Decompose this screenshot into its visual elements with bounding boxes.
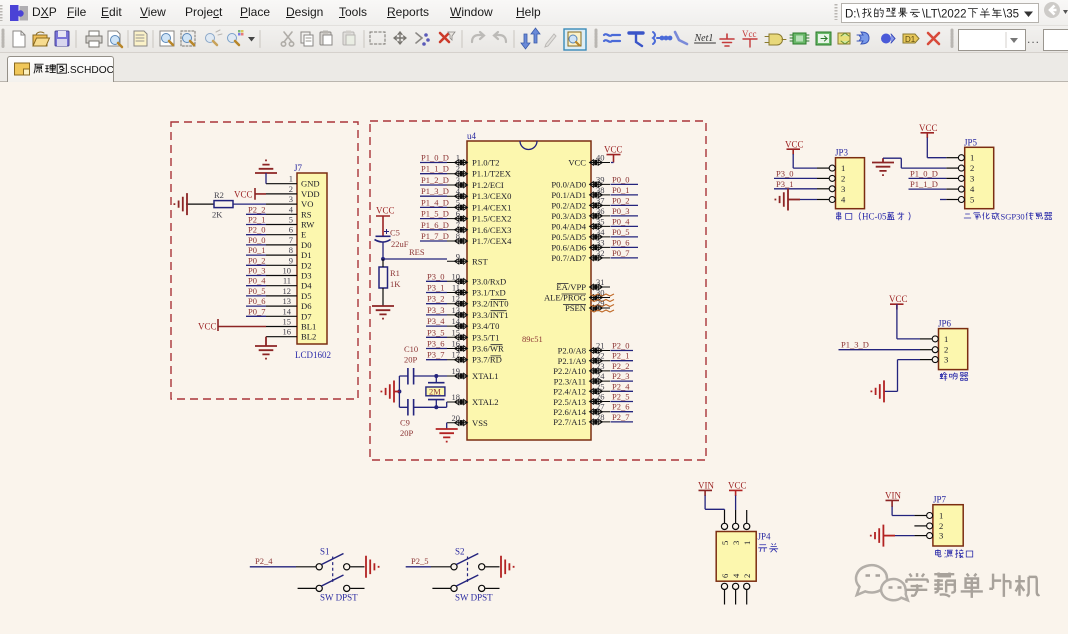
svg-text:P0_1: P0_1 [612,185,629,195]
svg-text:D0: D0 [301,240,312,250]
svg-text:3: 3 [456,175,460,185]
net label P2_5 right [611,392,634,402]
svg-text:VCC: VCC [198,322,217,332]
svg-text:VSS: VSS [472,418,488,428]
MCU right pin names [544,158,587,428]
svg-text:D3: D3 [301,271,312,281]
ground above J7 pin 1 [255,160,277,183]
power port VIN above JP7 [885,491,901,507]
connector JP3 body [835,148,865,209]
JP4 bottom pins 6,4,2 [721,583,749,604]
net label P2_3 right [611,371,634,381]
svg-text:P0_7: P0_7 [612,248,629,258]
JP4 rotated pin numbers bottom 6 4 2 [720,573,752,578]
svg-text:R1: R1 [390,268,400,278]
net label P3_1 at JP3 [774,179,817,189]
no-ERC marks on pins 30,29 [590,294,614,312]
net label P0_7 right [611,248,639,258]
JP4 label switch kaiguan [758,543,778,552]
svg-text:28: 28 [596,412,605,422]
svg-text:VCC: VCC [889,294,908,304]
svg-text:6: 6 [456,209,460,219]
svg-text:SW DPST: SW DPST [320,593,358,603]
wire VCC to JP6 pin1 [897,304,920,339]
svg-text:D7: D7 [301,311,312,321]
svg-text:XTAL2: XTAL2 [472,397,499,407]
svg-text:20P: 20P [404,355,418,365]
net label P2_1 right [611,351,634,361]
net label P0_1 right [611,185,639,195]
svg-text:P3.1/TxD: P3.1/TxD [472,288,506,298]
svg-text:29: 29 [596,298,605,308]
svg-text:4: 4 [970,184,975,194]
svg-text:S1: S1 [320,547,330,557]
svg-text:40: 40 [596,153,605,163]
svg-text:1: 1 [456,153,460,163]
resistor R2 [186,190,233,220]
svg-text:P2_5: P2_5 [612,392,629,402]
svg-text:P1.5/CEX2: P1.5/CEX2 [472,214,511,224]
net label P0_5 right [611,227,639,237]
svg-text:2: 2 [841,173,845,183]
svg-text:8: 8 [456,231,460,241]
svg-text:P2_1: P2_1 [612,351,629,361]
power port VIN above JP4 [698,481,714,496]
net label P0_5 [246,286,266,296]
net label P3_0 at JP3 [774,168,817,178]
svg-text:39: 39 [596,174,605,184]
ground at JP5 pin2 [872,158,894,175]
svg-text:2: 2 [456,164,460,174]
svg-text:LCD1602: LCD1602 [295,350,331,360]
J7 pin names [301,179,320,342]
wire VCC to JP5 pin1 [927,138,946,158]
net label P3_2 [426,294,447,304]
power port VCC above JP6 [889,294,908,309]
svg-text:P1_0_D: P1_0_D [421,153,449,163]
net label P0_2 right [611,195,639,205]
net label P2_4 right [611,381,634,391]
svg-text:P3_7: P3_7 [427,350,444,360]
JP5 label CO2 SGP30 sensor [964,211,1052,221]
svg-text:P0.7/AD7: P0.7/AD7 [551,253,586,263]
svg-text:20P: 20P [400,428,414,438]
svg-text:P0.5/AD5: P0.5/AD5 [551,232,586,242]
connector JP7 body [933,495,963,546]
svg-text:12: 12 [283,286,292,296]
svg-text:P3_0: P3_0 [776,168,793,178]
svg-text:VCC: VCC [919,123,938,133]
svg-text:P1_7_D: P1_7_D [421,231,449,241]
ground left of R2 [174,193,187,215]
svg-text:10: 10 [452,271,461,281]
net label P0_3 [246,266,266,276]
svg-text:\LT\2022: \LT\2022 [922,9,967,21]
ground below R1 [372,306,394,319]
svg-text:P2_4: P2_4 [255,556,273,566]
svg-text:u4: u4 [467,131,477,141]
svg-text:P0_2: P0_2 [248,255,265,265]
svg-text:P1.1/T2EX: P1.1/T2EX [472,169,512,179]
JP7 label power interface [936,549,973,557]
svg-text:P0.2/AD2: P0.2/AD2 [551,200,586,210]
svg-text:RST: RST [472,256,489,266]
svg-text:D:\: D:\ [845,9,861,21]
J7 pin numbers [283,174,294,337]
wire J7 pin1 [265,183,267,185]
JP7 pin numbers [939,511,943,541]
svg-text:JP7: JP7 [933,495,947,505]
svg-text:P3_1: P3_1 [776,179,793,189]
net label P0_7 [246,306,266,316]
net label P0_1 [246,245,266,255]
svg-text:P0_7: P0_7 [248,306,265,316]
svg-text:5: 5 [720,541,730,545]
net label P1_5_D [420,209,449,219]
svg-text:VCC: VCC [604,145,623,155]
svg-text:RW: RW [301,220,315,230]
wires XTAL1 net [399,374,447,378]
svg-text:P2.6/A14: P2.6/A14 [553,407,586,417]
svg-text:P0.0/AD0: P0.0/AD0 [551,179,586,189]
svg-text:P1.6/CEX3: P1.6/CEX3 [472,225,511,235]
svg-text:P3_2: P3_2 [427,294,444,304]
capacitor C5 22uF polarized [375,228,409,250]
net label P3_7 [426,350,447,360]
svg-text:VCC: VCC [728,481,747,491]
svg-text:RES: RES [409,247,425,257]
svg-text:30: 30 [596,288,605,298]
svg-text:P2_4: P2_4 [612,381,630,391]
crystal Y1 2M [426,376,445,407]
svg-text:SW DPST: SW DPST [455,593,493,603]
svg-text:P2_1: P2_1 [248,215,265,225]
MCU pin 9 [447,259,467,264]
svg-text:13: 13 [452,305,461,315]
MCU left pin names P1 [472,158,512,428]
svg-text:20: 20 [452,413,461,423]
MCU pins 10-17 [447,279,467,363]
svg-text:2: 2 [944,345,948,355]
svg-text:5: 5 [289,215,293,225]
svg-text:P2_7: P2_7 [612,412,629,422]
svg-text:14: 14 [283,306,292,316]
net label P1_7_D [420,231,449,241]
JP7 pins 1-3 [914,513,932,539]
net label P1_1_D [420,164,449,174]
svg-text:P0_0: P0_0 [612,174,629,184]
svg-text:9: 9 [289,255,293,265]
svg-text:36: 36 [596,206,605,216]
JP5 pin numbers [970,153,975,205]
net label P0_3 right [611,206,639,216]
svg-text:P3_1: P3_1 [427,283,444,293]
svg-text:12: 12 [452,294,461,304]
svg-text:1: 1 [970,153,974,163]
JP4 rotated pin numbers top 5 3 1 [720,541,752,545]
svg-text:3: 3 [939,531,943,541]
connector JP6 body [938,319,968,370]
ground below VSS pin20 [436,429,458,442]
svg-text:P1_4_D: P1_4_D [421,197,449,207]
svg-text:P1.2/ECI: P1.2/ECI [472,180,504,190]
svg-text:6: 6 [289,225,293,235]
svg-text:8: 8 [289,245,293,255]
MCU right pin numbers [596,153,605,422]
net label P3_5 [426,327,447,337]
net label P2_1 [246,215,266,225]
svg-text:16: 16 [283,327,292,337]
svg-text:VDD: VDD [301,189,320,199]
svg-text:P0_3: P0_3 [612,206,629,216]
svg-text:32: 32 [596,248,605,258]
net label P1_3_D [420,186,449,196]
ground at S2 [501,556,514,578]
svg-text:SGP30: SGP30 [1001,211,1025,221]
svg-text:R2: R2 [214,190,224,200]
svg-text:1K: 1K [390,279,401,289]
svg-text:2: 2 [289,184,293,194]
svg-text:4: 4 [731,573,741,578]
net label P0_6 [246,296,266,306]
capacitor C9 20P [400,399,414,438]
wire R2 to J7 pin3 [233,203,266,205]
svg-text:P1_0_D: P1_0_D [910,168,938,178]
svg-text:15: 15 [283,317,292,327]
svg-text:P2.2/A10: P2.2/A10 [553,366,586,376]
net label P3_3 [426,305,447,315]
wire C5 to junction to RST [381,242,447,261]
JP3 pin numbers [841,163,846,204]
svg-text:JP5: JP5 [964,137,978,147]
svg-text:2: 2 [939,521,943,531]
resistor R1 [379,259,401,306]
svg-text:33: 33 [596,237,605,247]
net label P2_2 right [611,361,634,371]
svg-text:VO: VO [301,199,313,209]
svg-text:P1_3_D: P1_3_D [421,186,449,196]
svg-text:D5: D5 [301,291,312,301]
svg-text:BL2: BL2 [301,332,316,342]
svg-text:P0_1: P0_1 [248,245,265,255]
MCU right overlines EA ALE/PROG PSEN [557,284,586,305]
svg-text:13: 13 [283,296,292,306]
svg-text:P1_1_D: P1_1_D [421,164,449,174]
svg-text:VCC: VCC [234,190,253,200]
svg-text:RS: RS [301,209,312,219]
wire VIN to JP7 pin1 [892,507,914,516]
JP6 pin numbers [944,334,948,365]
svg-text:P0_5: P0_5 [612,227,629,237]
net label P1_0_D at JP5 [909,168,947,178]
net label P1_0_D [420,153,449,163]
net label P3_0 [426,271,447,281]
svg-text:P3_3: P3_3 [427,305,444,315]
svg-text:1: 1 [939,511,943,521]
dashed region box: LCD module [171,122,358,399]
net label P1_3_D at JP6 [839,340,921,350]
svg-text:3: 3 [944,355,948,365]
svg-text:P3_4: P3_4 [427,316,445,326]
svg-text:P1.4/CEX1: P1.4/CEX1 [472,202,511,212]
svg-text:3: 3 [970,173,974,183]
JP5 pins 1-5 [946,155,964,203]
svg-text:2: 2 [742,574,752,578]
svg-text:P0.1/AD1: P0.1/AD1 [551,190,586,200]
svg-text:P2.5/A13: P2.5/A13 [553,397,586,407]
svg-text:19: 19 [452,366,461,376]
svg-text:D1: D1 [905,35,916,44]
net label P2_0 right [611,341,634,351]
svg-text:VIN: VIN [698,481,714,491]
net label P2_0 [246,225,266,235]
svg-text:Net1: Net1 [694,33,714,44]
connector J7 LCD1602 body [294,163,327,344]
svg-text:1: 1 [841,163,845,173]
svg-text:VIN: VIN [885,491,901,501]
net label P1_4_D [420,197,449,207]
wire caps left vertical [397,376,401,407]
svg-text:HC-05: HC-05 [862,212,887,222]
ground at S1 [366,556,379,578]
MCU left pin numbers [452,153,461,423]
svg-text:38: 38 [596,185,605,195]
svg-text:31: 31 [596,277,605,287]
svg-text:P3.4/T0: P3.4/T0 [472,321,499,331]
svg-text:35: 35 [596,216,605,226]
watermark wechat icon [856,565,908,600]
svg-text:P2_2: P2_2 [612,361,629,371]
svg-text:P0_4: P0_4 [612,216,630,226]
power port VCC above C5 [376,206,395,237]
wire VCC to JP3 pin1 [793,154,817,168]
net label P2_7 right [611,412,634,422]
svg-text:37: 37 [596,195,605,205]
watermark text xueba danpianji [906,573,1039,598]
svg-text:P0_0: P0_0 [248,235,265,245]
net label P1_2_D [420,175,449,185]
svg-text:11: 11 [283,276,291,286]
JP3 label chuankou HC-05 lanya [837,212,911,222]
MCU right pins 31,30,29 [590,284,610,310]
wire VSS to ground [446,423,448,429]
svg-text:D2: D2 [301,260,312,270]
svg-text:P3.0/RxD: P3.0/RxD [472,276,506,286]
wires XTAL2 net [399,402,447,409]
svg-text:P0_6: P0_6 [248,296,265,306]
svg-text:P1_1_D: P1_1_D [910,179,938,189]
svg-text:P1_6_D: P1_6_D [421,220,449,230]
wire VCC to JP4 pin3 [735,496,737,511]
svg-text:P2_6: P2_6 [612,402,629,412]
svg-text:XTAL1: XTAL1 [472,371,499,381]
dashed region box: MCU core [370,121,706,460]
JP4 top pins 5,3,1 [721,510,749,530]
wire ground to JP3 pin4 [800,199,817,201]
svg-text:P3_6: P3_6 [427,339,444,349]
svg-text:9: 9 [456,251,460,261]
svg-text:1: 1 [742,541,752,545]
connector JP4 body [716,532,771,582]
ground at JP3 pin4 [775,189,800,211]
net label P3_1 [426,283,447,293]
svg-text:D1: D1 [301,250,312,260]
svg-text:P2_0: P2_0 [248,225,265,235]
svg-text:5: 5 [456,197,460,207]
connector JP5 body [964,137,994,208]
svg-text:4: 4 [841,195,846,205]
net label P0_4 [246,276,266,286]
svg-text:S2: S2 [455,547,465,557]
net label P1_6_D [420,220,449,230]
svg-text:15: 15 [452,327,461,337]
svg-text:P2.0/A8: P2.0/A8 [558,346,586,356]
power port VCC above JP3 [785,139,804,154]
svg-text:P0_6: P0_6 [612,237,629,247]
svg-text:27: 27 [596,402,605,412]
svg-text:C5: C5 [390,228,400,238]
svg-text:P3_0: P3_0 [427,271,444,281]
power port VCC above JP5 [919,123,938,138]
svg-text:P3_5: P3_5 [427,327,444,337]
svg-text:P2_0: P2_0 [612,341,629,351]
svg-text:P0.4/AD4: P0.4/AD4 [551,221,586,231]
net label P0_0 right [611,174,639,184]
wire stub JP5 pin5 [940,199,946,201]
svg-text:7: 7 [456,220,460,230]
svg-text:GND: GND [301,179,320,189]
power port VCC at J7 pin15 [198,319,266,332]
svg-text:11: 11 [452,283,460,293]
MCU U4 89c51 body [467,131,591,440]
svg-text:P1_5_D: P1_5_D [421,209,449,219]
ground at JP6 [871,380,884,402]
net label P2_2 [246,204,266,214]
svg-text:VCC: VCC [785,139,804,149]
svg-text:7: 7 [289,235,293,245]
svg-text:VCC: VCC [376,206,395,216]
svg-text:P3.5/T1: P3.5/T1 [472,332,499,342]
svg-text:34: 34 [596,227,605,237]
net label P1_1_D at JP5 [909,179,947,189]
MCU left pins 1-8 [447,160,467,244]
power port VCC at MCU pin40 [604,145,623,163]
net label P0_4 right [611,216,639,226]
svg-text:1: 1 [944,334,948,344]
svg-text:P0_5: P0_5 [248,286,265,296]
svg-text:P2_5: P2_5 [411,556,428,566]
svg-text:P0_2: P0_2 [612,195,629,205]
ground at JP7 pin3 [871,525,895,547]
switch S2 [406,547,500,603]
MCU pins 19 18 20 [447,373,467,425]
ground left of caps [381,381,399,403]
svg-text:\35: \35 [1003,9,1019,21]
svg-text:26: 26 [596,392,605,402]
svg-text:5: 5 [970,195,974,205]
wire JP6 pin3 to ground [884,360,920,392]
svg-text:BL1: BL1 [301,322,316,332]
svg-text:P1_2_D: P1_2_D [421,175,449,185]
power port VCC at J7 pin2 [234,188,266,200]
wire VIN to JP4 pin5 [705,496,724,511]
svg-text:Vcc: Vcc [742,29,757,39]
svg-text:3: 3 [289,194,293,204]
svg-text:P2.3/A11: P2.3/A11 [554,376,586,386]
svg-text:24: 24 [596,371,605,381]
svg-text:17: 17 [452,350,461,360]
svg-text:P2_2: P2_2 [248,204,265,214]
